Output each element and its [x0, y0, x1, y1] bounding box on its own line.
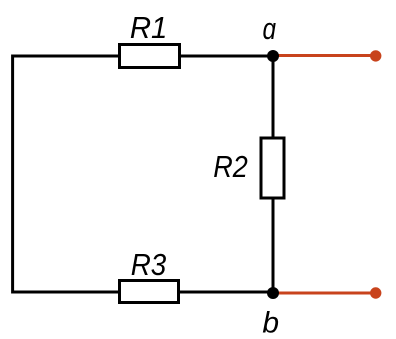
terminal dot bottom right — [370, 287, 381, 298]
svg-text:R1: R1 — [130, 10, 168, 45]
resistor R3 — [120, 281, 179, 303]
wire: vertical from R2 to node b — [272, 199, 275, 293]
wire: top segment from R1 to node a — [181, 55, 273, 58]
resistor R2 — [261, 138, 284, 198]
svg-text:R3: R3 — [131, 247, 167, 282]
wire: red lead from node a — [273, 54, 375, 57]
svg-text:R2: R2 — [213, 149, 248, 184]
wire: red lead from node b — [273, 292, 375, 295]
terminal dot top right — [370, 50, 381, 61]
wire: left vertical side — [13, 56, 118, 292]
resistor R1 — [120, 45, 180, 68]
svg-text:b: b — [262, 307, 279, 339]
node b — [267, 287, 279, 299]
svg-text:ɑ: ɑ — [263, 11, 277, 46]
wire: vertical from node a to R2 — [272, 56, 275, 137]
wire: bottom segment from R3 to node b — [180, 291, 273, 294]
node a — [267, 50, 279, 62]
